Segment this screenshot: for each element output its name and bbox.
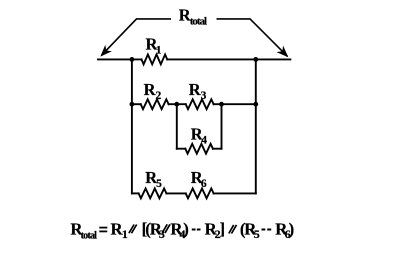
resistor R3 — [186, 99, 214, 109]
junction dot between R2 and R3 — [174, 102, 179, 107]
svg-text:total: total — [81, 231, 98, 242]
wire: Rtotal dimension line right — [217, 19, 288, 57]
svg-text:5: 5 — [156, 178, 162, 190]
svg-text:4: 4 — [201, 134, 207, 146]
svg-text:): ) — [183, 220, 189, 239]
wire: bottom branch between R5 and R6 — [166, 192, 185, 194]
wire: R4 loop right vertical — [221, 104, 223, 149]
wire: R4 loop bottom left segment — [177, 148, 186, 150]
node A junction dot (top left) — [130, 57, 135, 62]
wire: R4 loop left vertical — [176, 104, 178, 149]
wire: left vertical bus — [131, 59, 133, 193]
svg-text:): ) — [289, 220, 295, 239]
arrowhead left of Rtotal dimension — [100, 45, 112, 57]
svg-text:]: ] — [220, 220, 226, 239]
wire: right vertical bus — [255, 59, 257, 193]
wire: Rtotal dimension line left — [102, 19, 172, 55]
formula Rtotal = R1 // [(R3//R4) -- R2] // (R5 -- R6) — [70, 220, 294, 242]
wire: bottom branch left segment — [132, 192, 139, 194]
resistor R2 — [141, 99, 169, 109]
svg-text:6: 6 — [201, 178, 207, 190]
svg-text:1: 1 — [122, 227, 128, 241]
resistor R5 — [139, 189, 167, 199]
node B junction dot (top right) — [253, 57, 258, 62]
wire: top horizontal right of R1 — [167, 58, 290, 60]
svg-text:3: 3 — [201, 90, 207, 102]
svg-text:5: 5 — [254, 227, 260, 241]
junction dot middle branch left — [130, 102, 135, 107]
wire: R4 loop bottom right segment — [213, 148, 222, 150]
svg-text:1: 1 — [156, 45, 162, 57]
wire: middle branch right segment — [214, 103, 256, 105]
resistor R4 — [185, 144, 213, 154]
wire: main top horizontal (node A to node B) — [98, 58, 142, 60]
svg-text:2: 2 — [156, 90, 162, 102]
arrowhead right of Rtotal dimension — [277, 46, 289, 58]
resistor R1 — [142, 55, 168, 65]
resistor R6 — [186, 189, 214, 199]
junction dot middle branch right — [253, 102, 258, 107]
junction dot right of R3 — [219, 102, 224, 107]
wire: middle branch left segment — [132, 103, 141, 105]
wire: middle branch between R2 and R3 — [169, 103, 186, 105]
svg-text:total: total — [190, 15, 207, 27]
wire: bottom branch right segment — [214, 192, 256, 194]
